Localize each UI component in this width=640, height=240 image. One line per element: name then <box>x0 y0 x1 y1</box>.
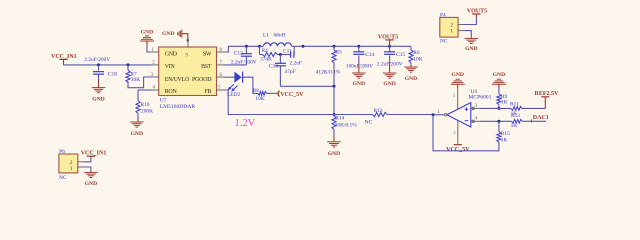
svg-text:VIN: VIN <box>165 64 176 70</box>
power port VCC_5V (R8) <box>278 91 304 98</box>
ground below P4 <box>465 37 479 52</box>
svg-text:10K: 10K <box>413 56 422 62</box>
resistor R5 <box>316 46 342 75</box>
resistor R9 <box>497 88 508 105</box>
svg-text:GND: GND <box>165 52 178 58</box>
capacitor C13 <box>269 55 296 87</box>
resistor R6 <box>409 46 423 63</box>
svg-text:NC: NC <box>59 175 67 181</box>
node L1 left <box>258 45 261 48</box>
svg-text:1K: 1K <box>511 123 518 129</box>
op-amp U6 MCP6001 <box>444 103 471 127</box>
svg-text:C18: C18 <box>108 72 117 78</box>
P4 pin 1 <box>458 30 464 32</box>
svg-text:C12: C12 <box>234 51 243 57</box>
svg-text:PGOOD: PGOOD <box>192 77 212 83</box>
svg-text:GND: GND <box>465 46 477 52</box>
svg-text:GND: GND <box>451 72 463 78</box>
svg-text:C13: C13 <box>269 64 278 70</box>
svg-text:R8: R8 <box>253 89 259 94</box>
pin 5 <box>217 86 225 91</box>
svg-text:P4: P4 <box>440 13 446 19</box>
node C15 top <box>388 45 391 48</box>
svg-text:R14: R14 <box>335 116 344 122</box>
svg-text:R6: R6 <box>413 50 420 56</box>
U6 pin 4 (-) <box>471 117 481 123</box>
net label DAC1 <box>531 115 549 122</box>
svg-text:2.2nF: 2.2nF <box>290 61 302 67</box>
power port VCC_IN1 (P6) <box>81 151 107 157</box>
wire LED2 to R8 <box>243 77 258 93</box>
svg-text:100nF/200V: 100nF/200V <box>346 64 373 70</box>
ground above op-amp V+ <box>451 72 465 88</box>
svg-text:R10: R10 <box>141 102 150 108</box>
wire feedback loop <box>433 115 499 151</box>
svg-text:P6: P6 <box>59 149 65 155</box>
wire P4 pin1 to GND <box>464 31 471 37</box>
op IC U7 LM5160DDAR body <box>159 47 217 96</box>
pin 4 <box>151 86 159 91</box>
svg-text:NC: NC <box>440 39 448 45</box>
ground below R6 <box>404 63 418 82</box>
pin 2 <box>151 61 159 66</box>
wire P4 pin2 to VOUT5 <box>464 17 476 24</box>
U6 pin 1 (output) <box>433 110 444 115</box>
wire -input line <box>481 120 512 122</box>
svg-text:C11: C11 <box>283 49 292 55</box>
pin 6 <box>217 73 225 78</box>
svg-text:GND: GND <box>405 76 417 82</box>
resistor R15 <box>497 121 510 143</box>
U6 pin 2 (V-) <box>453 121 457 144</box>
node L1 right <box>302 45 305 48</box>
P6 pin 1 <box>78 166 84 168</box>
pin 7 <box>217 61 225 66</box>
capacitor C15 <box>377 46 406 71</box>
pin 8 <box>217 48 225 53</box>
svg-text:NC: NC <box>365 120 373 126</box>
U7 designator text <box>160 98 196 110</box>
node R9/+input <box>497 107 500 110</box>
svg-text:2.2uF/200V: 2.2uF/200V <box>84 57 110 63</box>
ground above R9 <box>492 72 506 88</box>
connector P6 <box>59 149 78 181</box>
wire R9 to +input <box>498 105 500 109</box>
svg-text:200K: 200K <box>141 109 153 115</box>
wire PGOOD pin6 to LED <box>224 76 234 78</box>
capacitor C18 <box>84 57 117 86</box>
svg-text:LED2: LED2 <box>227 92 240 98</box>
svg-text:MCP6001: MCP6001 <box>468 94 491 100</box>
ground below P6 <box>84 171 98 187</box>
svg-text:30K: 30K <box>131 77 140 83</box>
wire +input line <box>481 107 512 109</box>
capacitor C11 <box>283 46 302 66</box>
resistor R10 <box>136 90 153 115</box>
power port VOUT5 (rail) <box>378 35 398 47</box>
svg-text:GND: GND <box>383 81 395 87</box>
svg-text:REF2.5V: REF2.5V <box>535 91 560 97</box>
pin 3 <box>151 73 159 78</box>
wire SW pin8 to rail <box>224 46 259 52</box>
ground below C18 <box>92 86 106 103</box>
ground above pin 1 (GND power port) <box>140 29 154 45</box>
resistor R11 <box>510 101 522 117</box>
node C12 top <box>245 45 248 48</box>
svg-text:R12: R12 <box>374 108 383 114</box>
svg-text:LM5160DDAR: LM5160DDAR <box>160 104 196 110</box>
wire P6 pin2 to VCC_IN1 <box>84 156 91 162</box>
svg-text:GND: GND <box>92 97 104 103</box>
wire R5 to C13 node <box>333 63 335 86</box>
resistor R12 <box>334 108 433 125</box>
svg-text:C14: C14 <box>365 52 374 58</box>
svg-text:412K/0.1%: 412K/0.1% <box>316 69 341 75</box>
svg-text:GND: GND <box>131 131 143 137</box>
node R4/C11/C13 junction <box>279 53 282 56</box>
svg-text:R11: R11 <box>510 101 519 107</box>
svg-text:GND: GND <box>328 151 340 157</box>
svg-text:R15: R15 <box>501 131 510 137</box>
node R7/rail junction <box>127 63 130 66</box>
svg-text:GND: GND <box>353 81 365 87</box>
svg-text:R4: R4 <box>262 48 269 54</box>
svg-text:1K: 1K <box>501 137 508 143</box>
wire R11 to REF2.5V <box>522 107 545 109</box>
svg-text:GND: GND <box>85 181 97 187</box>
resistor R13 <box>511 113 523 129</box>
ground below C15 <box>383 72 397 88</box>
svg-text:47pF: 47pF <box>285 69 296 75</box>
resistor R7 <box>126 65 140 83</box>
wire P6 pin1 to GND <box>84 167 91 171</box>
svg-text:BST: BST <box>201 64 212 70</box>
ground below R10 <box>130 114 144 138</box>
power port VOUT5 (P4) <box>467 9 487 18</box>
capacitor C14 <box>346 46 375 71</box>
node FB/R14 junction <box>333 113 336 116</box>
pin 1 <box>151 48 159 53</box>
ground below R14 <box>327 130 341 158</box>
label 1.2V <box>235 118 256 129</box>
capacitor C12 (bootstrap) <box>231 46 257 65</box>
svg-text:VCC_5V: VCC_5V <box>280 92 304 98</box>
node R5 top <box>333 45 336 48</box>
node C13/R5 junction <box>333 85 336 88</box>
pin 9 (pad) <box>187 40 189 47</box>
svg-text:2: 2 <box>453 130 455 135</box>
resistor R8 <box>253 89 278 102</box>
wire R5 node to FB line <box>333 86 335 114</box>
svg-text:DAC1: DAC1 <box>533 115 549 121</box>
svg-text:R13: R13 <box>511 113 520 119</box>
power port VCC_5V (op-amp) <box>446 145 470 153</box>
svg-text:U7: U7 <box>160 98 167 104</box>
svg-text:2.2uF/200V: 2.2uF/200V <box>377 61 403 67</box>
node R15/-input <box>497 120 500 123</box>
power port VCC_IN1 (input rail) <box>51 54 77 65</box>
svg-text:SW: SW <box>203 52 212 58</box>
P6 pin 2 <box>78 161 84 163</box>
connector P4 <box>440 13 458 45</box>
wire C12 to BST pin7 <box>224 64 246 66</box>
svg-text:EN/UVLO: EN/UVLO <box>165 77 190 83</box>
svg-text:374K: 374K <box>260 56 272 62</box>
wire R7 to EN/UVLO pin3 <box>128 77 151 88</box>
svg-text:10K/0.1%: 10K/0.1% <box>335 122 358 128</box>
svg-text:GND: GND <box>141 29 153 35</box>
wire VOUT rail <box>292 45 412 47</box>
power port REF2.5V <box>535 91 560 108</box>
wire C13 to R5 node <box>280 85 334 87</box>
svg-text:GND: GND <box>493 72 505 78</box>
wire GND to pin 1 <box>147 45 151 52</box>
svg-text:10K: 10K <box>255 96 264 102</box>
node output junction <box>432 113 435 116</box>
wire FB pin5 to divider <box>224 90 334 115</box>
svg-text:R5: R5 <box>336 50 343 56</box>
svg-text:1K: 1K <box>501 99 508 105</box>
wire VCC_IN1 rail to VIN <box>64 64 152 66</box>
svg-text:68uH: 68uH <box>274 32 286 38</box>
ground (rotated) to pad pin 9 <box>162 30 189 42</box>
svg-text:L1: L1 <box>263 32 269 38</box>
resistor R14 <box>332 115 357 130</box>
U6 pin 5 (V+) <box>453 89 458 110</box>
diode LED2 <box>227 72 243 99</box>
svg-text:VCC_5V: VCC_5V <box>446 147 470 153</box>
P4 pin 2 <box>458 24 464 26</box>
wire R13 to DAC1 <box>522 120 546 122</box>
svg-text:GND: GND <box>162 31 174 37</box>
ground below C14 <box>352 72 366 88</box>
svg-text:RON: RON <box>165 89 178 95</box>
node C18/rail junction <box>97 63 100 66</box>
svg-text:FB: FB <box>204 89 211 95</box>
svg-text:C15: C15 <box>396 52 405 58</box>
inductor L1 <box>260 32 292 46</box>
node C14 top <box>357 45 360 48</box>
resistor R4 <box>260 46 291 62</box>
svg-text:1.2V: 1.2V <box>235 118 256 129</box>
U6 designator <box>468 89 491 101</box>
U6 pin 3 (+) <box>471 104 481 110</box>
